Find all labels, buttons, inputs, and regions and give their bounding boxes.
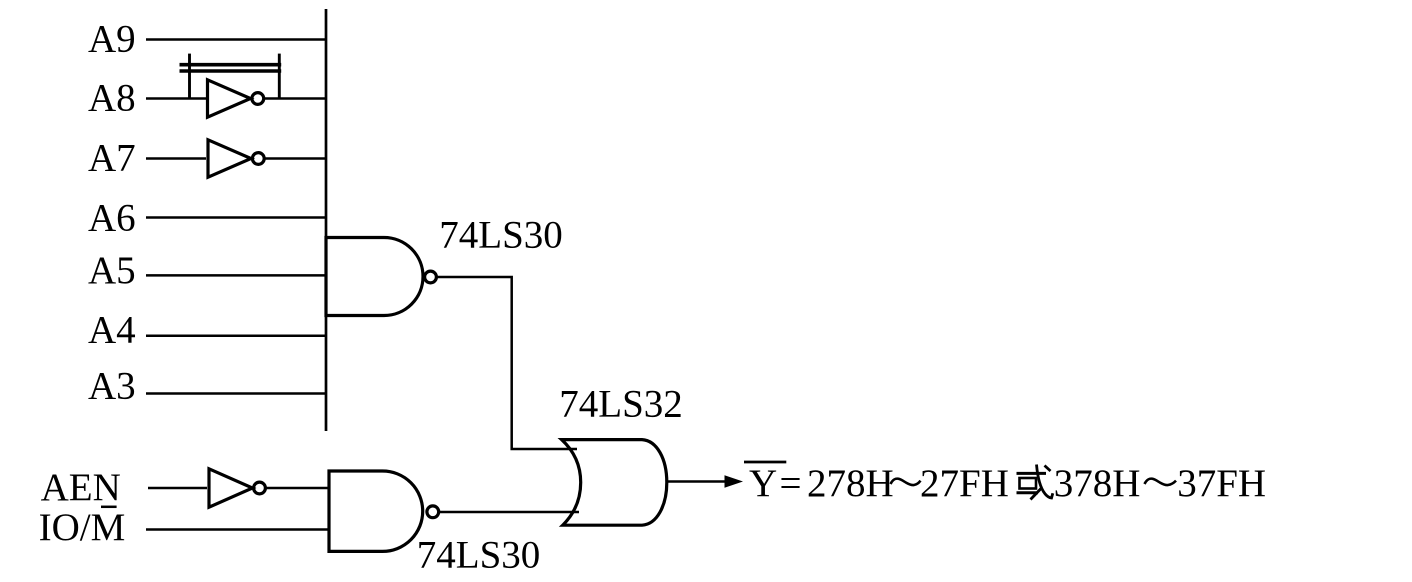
svg-text:A4: A4 (88, 309, 136, 352)
svg-text:AEN: AEN (41, 466, 121, 509)
svg-text:37FH: 37FH (1177, 462, 1266, 505)
svg-text:27FH: 27FH (920, 462, 1009, 505)
svg-text:A7: A7 (88, 137, 136, 180)
svg-text:278H: 278H (807, 462, 894, 505)
svg-text:IO/M: IO/M (39, 506, 126, 549)
svg-text:=: = (780, 462, 802, 505)
svg-text:A3: A3 (88, 365, 136, 408)
svg-text:Y: Y (749, 462, 777, 505)
svg-text:A9: A9 (88, 18, 136, 61)
svg-text:74LS30: 74LS30 (439, 213, 563, 256)
svg-text:378H: 378H (1054, 462, 1141, 505)
svg-text:74LS30: 74LS30 (417, 533, 541, 576)
svg-text:74LS32: 74LS32 (559, 382, 683, 425)
svg-text:A6: A6 (88, 197, 136, 240)
svg-text:A5: A5 (88, 249, 136, 292)
svg-text:A8: A8 (88, 77, 136, 120)
